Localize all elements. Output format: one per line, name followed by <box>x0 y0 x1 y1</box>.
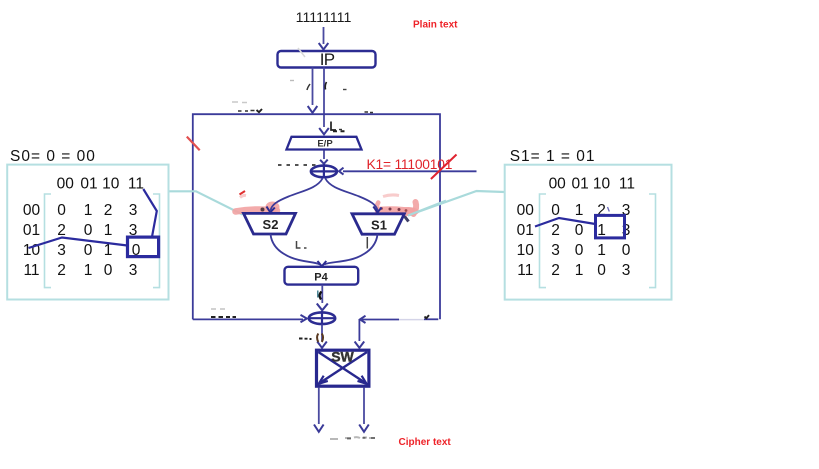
S0 matrix right bracket <box>153 194 160 288</box>
wire XOR2 to SW <box>321 325 323 342</box>
wire outer-box bottom right toward XOR2 <box>424 318 438 320</box>
svg-text:00: 00 <box>549 176 567 193</box>
svg-text:00: 00 <box>23 202 41 219</box>
svg-text:1: 1 <box>575 262 584 279</box>
svg-text:00: 00 <box>517 202 535 219</box>
svg-text:11: 11 <box>128 176 144 193</box>
smudge faint diagonal above <box>298 48 305 57</box>
svg-text:P4: P4 <box>314 271 328 283</box>
svg-text:01: 01 <box>517 222 534 239</box>
smudge dashes on top edge <box>238 110 255 113</box>
svg-text:S1: S1 <box>371 217 387 232</box>
smudge navy mark at S1 top right <box>401 211 409 222</box>
pink highlight over S1 <box>377 210 414 212</box>
svg-text:3: 3 <box>622 262 631 279</box>
svg-text:0: 0 <box>84 222 93 239</box>
svg-text:10: 10 <box>102 176 120 193</box>
svg-text:E/P: E/P <box>317 138 333 149</box>
svg-text:01: 01 <box>23 222 40 239</box>
block S2 trapezoid <box>244 213 296 234</box>
svg-text:Plain text: Plain text <box>413 20 458 31</box>
outer fk box (left, top, right edges) <box>193 114 440 319</box>
wire IP right branch <box>323 68 325 128</box>
red slash on outer box left edge <box>187 137 200 151</box>
S0 pointer line from column 11 <box>143 189 157 237</box>
svg-text:11111111: 11111111 <box>296 10 352 26</box>
wire IP left branch <box>312 68 314 106</box>
svg-text:2: 2 <box>57 222 66 239</box>
svg-text:0: 0 <box>84 242 93 259</box>
cyan connector overlay over pink <box>408 201 446 216</box>
dashed line left of XOR1 <box>278 164 316 166</box>
svg-text:IP: IP <box>320 50 335 69</box>
smudge paren below IP <box>325 82 326 90</box>
smudge quote marks above E/P <box>333 130 345 132</box>
svg-text:11: 11 <box>619 176 635 193</box>
svg-text:10: 10 <box>593 176 611 193</box>
smudge dark remnant on S2 top <box>261 208 265 212</box>
cyan connector left table to S2 <box>169 191 243 214</box>
wire SW left output <box>318 388 320 425</box>
svg-text:01: 01 <box>571 176 588 193</box>
wire outer-box bottom left into XOR2 <box>193 318 303 320</box>
XOR1 gate <box>311 166 337 178</box>
smudge comma below IP <box>307 84 310 90</box>
svg-text:S0= 0 = 00: S0= 0 = 00 <box>10 148 96 165</box>
svg-text:11: 11 <box>23 262 39 279</box>
wire K1 into XOR1 <box>343 170 477 172</box>
smudge faint dashes above <box>211 308 225 310</box>
svg-text:S1= 1 = 01: S1= 1 = 01 <box>510 148 596 165</box>
S0 table cyan box <box>7 165 168 300</box>
smudge paren below P4 <box>320 292 322 300</box>
pink highlight over S2 <box>236 209 278 211</box>
S0 selected cell box <box>128 237 159 257</box>
svg-text:0: 0 <box>622 242 631 259</box>
wire XOR1 to S1 (curve) <box>325 179 377 211</box>
block SW <box>317 350 369 386</box>
svg-text:2: 2 <box>104 202 113 219</box>
svg-text:0: 0 <box>551 202 560 219</box>
S1 table cyan box <box>505 165 672 300</box>
svg-text:2: 2 <box>551 262 560 279</box>
svg-text:SW: SW <box>331 349 354 365</box>
red tick above S2 <box>240 191 246 195</box>
svg-text:00: 00 <box>57 176 75 193</box>
svg-text:0: 0 <box>575 242 584 259</box>
svg-text:11: 11 <box>517 262 533 279</box>
block S1 trapezoid <box>352 214 404 234</box>
svg-text:2: 2 <box>551 222 560 239</box>
SW cross diagonal TL-BR <box>318 352 366 384</box>
XOR2 gate <box>309 312 335 324</box>
block IP <box>278 51 376 68</box>
svg-text:10: 10 <box>517 242 535 259</box>
wire XOR1 to S2 (curve) <box>271 179 323 211</box>
smudge black dashes on bottom-left wire <box>211 316 236 318</box>
smudge dash right of IP lines <box>343 89 347 91</box>
svg-text:0: 0 <box>597 262 606 279</box>
wire input to IP <box>323 27 325 44</box>
svg-text:3: 3 <box>57 242 66 259</box>
svg-text:3: 3 <box>129 262 138 279</box>
block E/P trapezoid <box>287 137 362 150</box>
S0 pointer line from row 10 <box>29 238 128 249</box>
S1 matrix left bracket <box>540 194 547 288</box>
block P4 <box>285 267 359 285</box>
svg-text:3: 3 <box>551 242 560 259</box>
S1 selected cell box <box>596 215 625 238</box>
arrowhead into P4 <box>318 261 327 266</box>
S1 matrix right bracket <box>649 194 656 288</box>
svg-text:1: 1 <box>84 262 93 279</box>
svg-text:2: 2 <box>57 262 66 279</box>
svg-text:1: 1 <box>84 202 93 219</box>
SW cross diagonal TR-BL <box>319 352 367 384</box>
smudge orange marks <box>317 334 323 343</box>
smudge dark dots under S1 highlight <box>380 207 383 210</box>
svg-text:Cipher text: Cipher text <box>399 437 452 448</box>
smudge L above E/P <box>331 122 336 131</box>
svg-text:0: 0 <box>57 202 66 219</box>
svg-text:01: 01 <box>80 176 97 193</box>
svg-text:3: 3 <box>129 202 138 219</box>
svg-text:1: 1 <box>575 202 584 219</box>
svg-text:1: 1 <box>597 222 606 239</box>
cyan connector S1 to right table <box>408 191 505 216</box>
svg-text:1: 1 <box>104 222 113 239</box>
S0 matrix left bracket <box>45 194 52 288</box>
smudge dashes left of XOR2-SW wire <box>299 338 312 341</box>
svg-text:S2: S2 <box>263 217 279 232</box>
wire E/P to XOR1 <box>323 151 325 160</box>
smudge bar below S1 <box>366 237 368 249</box>
wire P4 to XOR2 <box>321 285 323 303</box>
smudge check mark near bottom right corner <box>425 315 430 318</box>
red slash through K1 <box>431 155 457 180</box>
wire SW right output <box>363 388 365 425</box>
smudge dashes on top edge right <box>365 111 374 114</box>
svg-text:0: 0 <box>104 262 113 279</box>
smudge gray remnants near bottom <box>330 437 375 439</box>
svg-text:0: 0 <box>575 222 584 239</box>
smudge faint left <box>290 80 294 82</box>
S1 pointer line from row 01 <box>535 218 595 227</box>
wire S1 to P4 (curve) <box>324 234 377 265</box>
S1 small tick near value 2 <box>608 207 610 212</box>
svg-text:1: 1 <box>597 242 606 259</box>
wire S2 to P4 (curve) <box>271 234 320 265</box>
smudge L below S2 <box>297 241 307 248</box>
wire drop from bottom-right wire into SW <box>358 320 360 342</box>
